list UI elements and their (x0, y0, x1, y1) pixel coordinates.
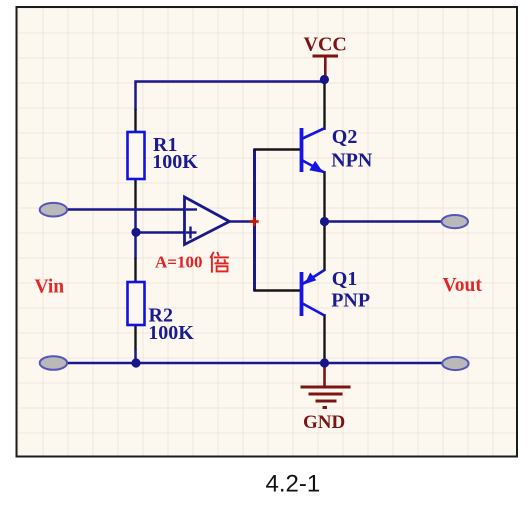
junction at VCC rail (320, 75, 329, 84)
port terminal output bottom (442, 357, 468, 370)
resistor R1 (128, 132, 145, 179)
port terminal output top (442, 215, 468, 228)
wire top rail navy from left corner to VCC junction (136, 82, 325, 111)
wire Q1 collector to ground rail black vertical (323, 314, 325, 363)
wire R1 bottom pin black down to Vin wire (134, 179, 136, 210)
svg-text:VCC: VCC (304, 34, 347, 56)
svg-text:NPN: NPN (331, 150, 373, 172)
port terminal input top (40, 203, 67, 217)
ground symbol GND (301, 363, 351, 408)
svg-text:Vin: Vin (35, 277, 65, 298)
wire Vout horizontal navy (325, 220, 444, 223)
wire VCC to Q2 collector black vertical (323, 80, 325, 131)
wire navy stub to bottom rail (134, 349, 137, 363)
wire Vin horizontal navy (64, 208, 199, 211)
junction at output node (320, 217, 329, 226)
junction bottom rail at ground (320, 358, 329, 367)
svg-text:Vout: Vout (443, 275, 483, 296)
svg-text:GND: GND (303, 412, 345, 433)
op-amp U1 (185, 197, 230, 245)
svg-text:100K: 100K (152, 151, 198, 173)
wire Q2 emitter to Q1 emitter black vertical (323, 171, 325, 271)
wire Q1 base black (254, 289, 300, 291)
wire R2 top pin black (134, 258, 136, 282)
no-ERC cross (red) at op-amp output node (250, 217, 259, 226)
port terminal input bottom (40, 356, 67, 370)
wire bottom rail navy (64, 362, 443, 365)
junction node A (divider tap) (131, 228, 140, 237)
wire noninverting input navy (136, 231, 199, 234)
wire R2 bottom pin black (134, 325, 136, 350)
transistor Q2 (NPN) (302, 128, 326, 173)
wire navy vertical between Vin wire and node A (134, 210, 137, 260)
svg-text:A=100: A=100 (155, 253, 202, 272)
svg-text:PNP: PNP (331, 290, 370, 312)
power symbol VCC (313, 56, 339, 80)
svg-text:Q2: Q2 (332, 126, 358, 148)
transistor Q1 (PNP) (302, 270, 325, 316)
gain label A=100倍 (155, 252, 229, 273)
wire op-amp output navy (229, 220, 256, 223)
svg-text:100K: 100K (148, 322, 194, 344)
wire R1 top pin black (134, 109, 136, 132)
svg-text:4.2-1: 4.2-1 (266, 471, 321, 498)
resistor R2 (128, 282, 145, 325)
wire Q2 base black (254, 148, 300, 150)
wire base bus vertical navy (253, 149, 256, 292)
svg-text:Q1: Q1 (332, 268, 358, 290)
junction bottom rail left (131, 358, 140, 367)
